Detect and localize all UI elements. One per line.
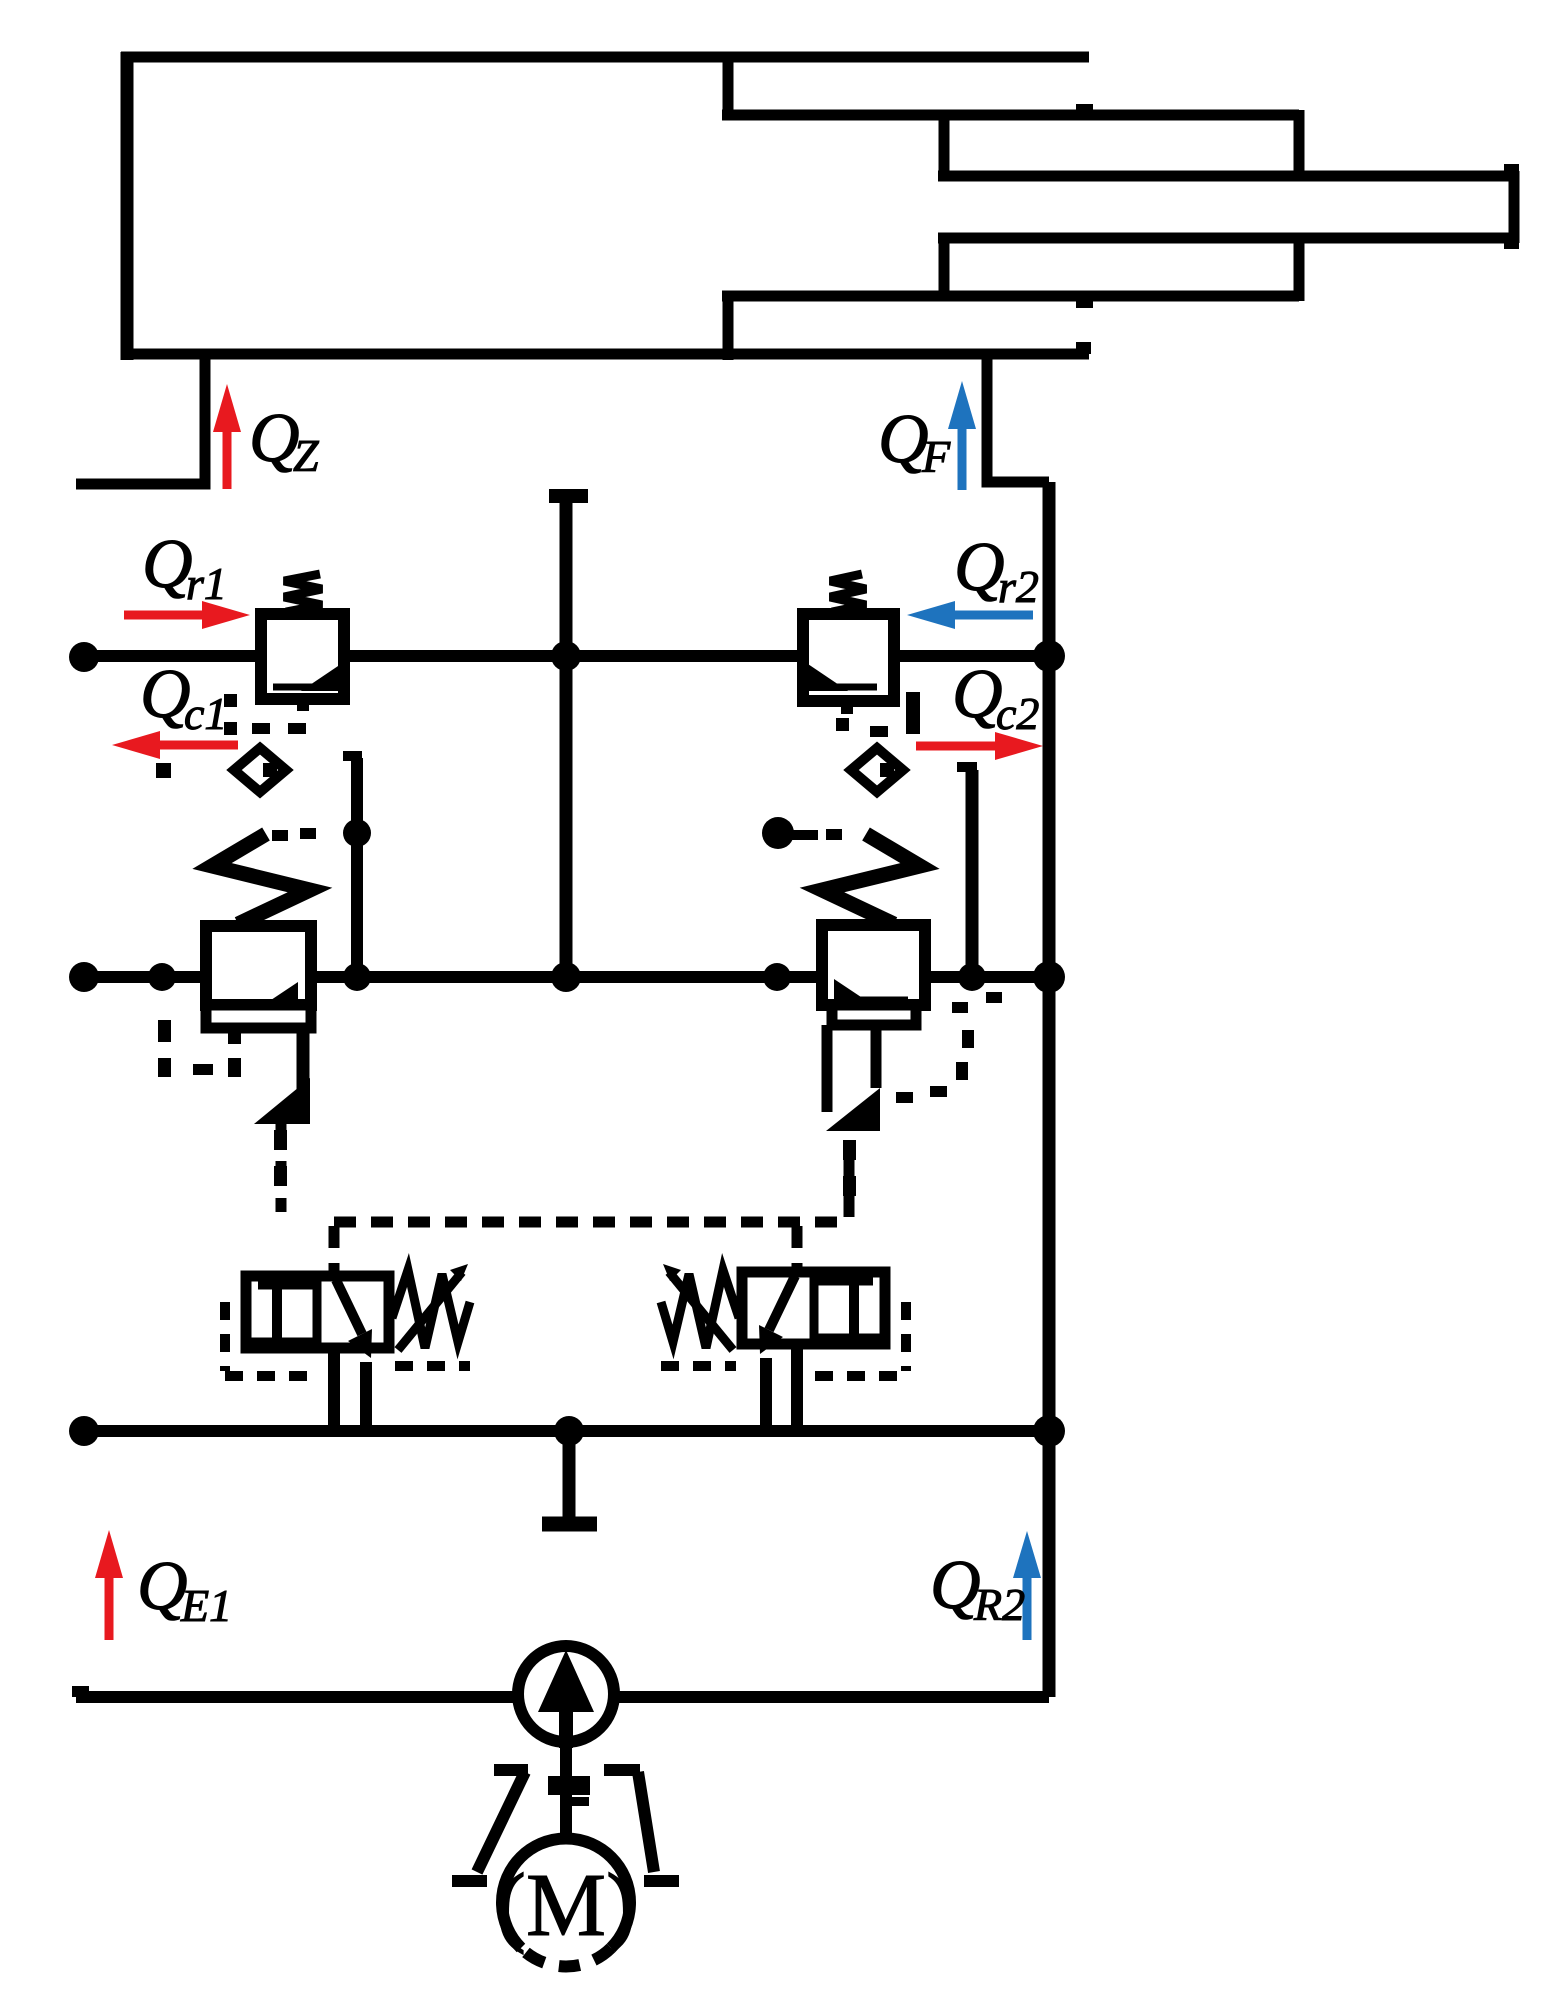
flow arrow QE1 <box>95 1530 123 1640</box>
svg-text:Q: Q <box>249 400 300 477</box>
B2 lower arrow <box>826 1025 880 1131</box>
pump motor shaft <box>548 1748 590 1838</box>
label QE1 <box>137 1548 232 1631</box>
label QR2 <box>930 1547 1025 1630</box>
motor M1 <box>496 1838 636 1966</box>
cylinder stage 2 <box>722 52 1299 360</box>
pump P1 <box>518 1646 614 1748</box>
svg-text:Q: Q <box>137 1548 188 1625</box>
label Qc2 <box>952 656 1039 739</box>
relief valve V1 box <box>261 574 344 711</box>
orifice plug right <box>851 748 903 792</box>
B2 pilot port dot <box>762 817 842 849</box>
orifice plug left <box>234 748 286 792</box>
directional valve D1 body <box>246 1276 389 1358</box>
svg-text:r2: r2 <box>998 561 1039 612</box>
B2 box <box>822 925 925 1025</box>
D1 port wires <box>334 1348 366 1431</box>
flow arrow Qr2 <box>907 601 1033 629</box>
flow arrow Qc2 <box>916 732 1043 760</box>
label QF <box>878 401 951 482</box>
V1 drain dashes <box>156 694 306 778</box>
node dots <box>69 640 1065 1447</box>
flow arrow QR2 <box>1013 1531 1041 1640</box>
coupling bracket right <box>604 1770 679 1881</box>
B1 pilot dashes <box>158 1020 287 1186</box>
D2 pilot bracket dashed <box>661 1302 906 1376</box>
svg-text:Q: Q <box>140 656 191 733</box>
coupling bracket left <box>452 1770 528 1881</box>
B1 box <box>206 926 311 1028</box>
label QZ <box>249 400 319 481</box>
flow arrow QF <box>948 381 976 490</box>
D1 pilot bracket dashed <box>225 1302 470 1376</box>
relief valve V2 box <box>803 574 894 714</box>
counterbalance valve B1 branch wire <box>343 751 362 977</box>
flow arrow Qr1 <box>124 601 250 629</box>
svg-text:E1: E1 <box>180 1580 232 1631</box>
left port pipe <box>76 354 205 484</box>
svg-text:Q: Q <box>954 529 1005 606</box>
B1 spring <box>212 828 316 924</box>
svg-text:r1: r1 <box>186 558 227 609</box>
svg-text:c1: c1 <box>184 688 227 739</box>
D1 spring and arrow <box>392 1264 470 1350</box>
label Qr2 <box>954 529 1039 612</box>
svg-text:Q: Q <box>142 526 193 603</box>
middle bus wire <box>84 971 1049 983</box>
cylinder stage 3 rod <box>938 110 1519 301</box>
B2 spring <box>822 834 920 924</box>
flow arrow QZ <box>213 384 241 489</box>
flow arrow Qc1 <box>112 731 238 759</box>
svg-text:Q: Q <box>930 1547 981 1624</box>
D2 spring and arrow <box>661 1264 739 1350</box>
D2 port wires <box>766 1344 797 1431</box>
telescopic cylinder barrel <box>121 52 1089 360</box>
right port pipe <box>987 354 1049 482</box>
svg-text:c2: c2 <box>996 688 1039 739</box>
pump line wire <box>72 1686 1049 1697</box>
svg-text:Q: Q <box>878 401 929 478</box>
label Qc1 <box>140 656 227 739</box>
right rail wire <box>1043 482 1056 1697</box>
B2 pilot dashes <box>843 992 1002 1196</box>
crossover pilot line dashed <box>281 1124 849 1276</box>
svg-text:F: F <box>921 431 951 482</box>
center tank T1 <box>549 496 588 977</box>
svg-text:Q: Q <box>952 656 1003 733</box>
lower bus wire <box>84 1425 1049 1437</box>
svg-text:(M): (M) <box>496 1856 636 1955</box>
V2 drain dashes <box>836 692 920 737</box>
top bus wire <box>84 650 1049 662</box>
directional valve D2 body <box>742 1272 885 1354</box>
svg-text:R2: R2 <box>973 1579 1025 1630</box>
B1 lower arrow <box>254 1028 310 1124</box>
counterbalance valve B2 branch wire <box>957 762 977 977</box>
label Qr1 <box>142 526 227 609</box>
lower tank T2 <box>542 1431 597 1524</box>
svg-text:Z: Z <box>293 430 319 481</box>
